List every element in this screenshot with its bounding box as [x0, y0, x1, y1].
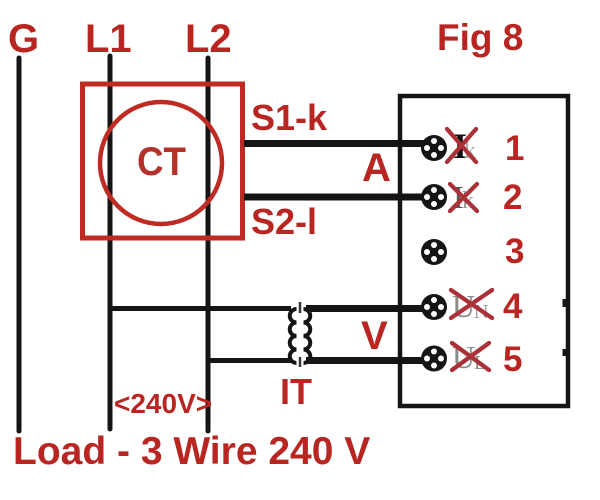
svg-text:3: 3: [505, 232, 524, 271]
svg-text:5: 5: [503, 340, 522, 379]
svg-text:L2: L2: [185, 17, 232, 61]
svg-text:G: G: [8, 17, 39, 61]
svg-text:2: 2: [503, 178, 522, 217]
svg-text:S2-l: S2-l: [251, 201, 317, 242]
svg-text:Load - 3 Wire 240 V: Load - 3 Wire 240 V: [13, 430, 370, 473]
svg-text:S1-k: S1-k: [251, 97, 328, 138]
svg-text:1: 1: [505, 129, 524, 168]
svg-text:IT: IT: [280, 371, 312, 412]
svg-text:CT: CT: [137, 140, 186, 184]
svg-text:A: A: [362, 146, 391, 190]
svg-text:<240V>: <240V>: [114, 388, 212, 419]
svg-text:Fig 8: Fig 8: [437, 17, 523, 58]
svg-text:V: V: [361, 314, 388, 358]
svg-text:L1: L1: [85, 17, 132, 61]
svg-text:4: 4: [503, 287, 523, 326]
